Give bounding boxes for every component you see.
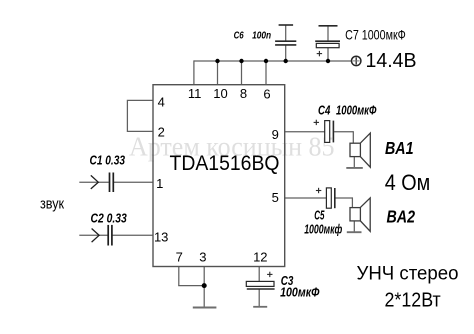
svg-text:9: 9 — [272, 127, 279, 142]
svg-text:12: 12 — [253, 250, 267, 265]
svg-text:C7 1000мкФ: C7 1000мкФ — [345, 27, 406, 43]
svg-text:УНЧ стерео: УНЧ стерео — [357, 262, 459, 284]
svg-text:11: 11 — [188, 86, 202, 101]
svg-text:7: 7 — [176, 250, 183, 265]
svg-text:2: 2 — [158, 125, 165, 140]
svg-text:1: 1 — [156, 176, 163, 191]
svg-text:1000мкф: 1000мкф — [304, 222, 342, 236]
svg-text:C2 0.33: C2 0.33 — [91, 211, 127, 225]
svg-text:4 Ом: 4 Ом — [385, 170, 431, 195]
svg-text:4: 4 — [158, 94, 165, 109]
svg-text:звук: звук — [40, 196, 64, 213]
svg-text:14.4В: 14.4В — [366, 49, 417, 72]
svg-text:BA1: BA1 — [385, 138, 414, 158]
svg-text:1000мкФ: 1000мкФ — [336, 104, 377, 118]
svg-text:C6: C6 — [234, 30, 244, 42]
svg-text:C4: C4 — [318, 104, 330, 118]
svg-text:10: 10 — [213, 86, 227, 101]
svg-text:100мкФ: 100мкФ — [280, 286, 319, 300]
svg-text:3: 3 — [199, 250, 206, 265]
svg-text:2*12Вт: 2*12Вт — [385, 290, 441, 312]
svg-text:BA2: BA2 — [387, 206, 416, 226]
svg-text:6: 6 — [263, 86, 270, 101]
svg-text:8: 8 — [240, 86, 247, 101]
svg-text:C1 0.33: C1 0.33 — [90, 154, 126, 168]
svg-text:C5: C5 — [314, 209, 325, 223]
svg-text:13: 13 — [154, 230, 168, 245]
svg-text:100n: 100n — [252, 30, 271, 42]
svg-text:TDA1516BQ: TDA1516BQ — [170, 151, 280, 175]
svg-text:5: 5 — [272, 190, 279, 205]
